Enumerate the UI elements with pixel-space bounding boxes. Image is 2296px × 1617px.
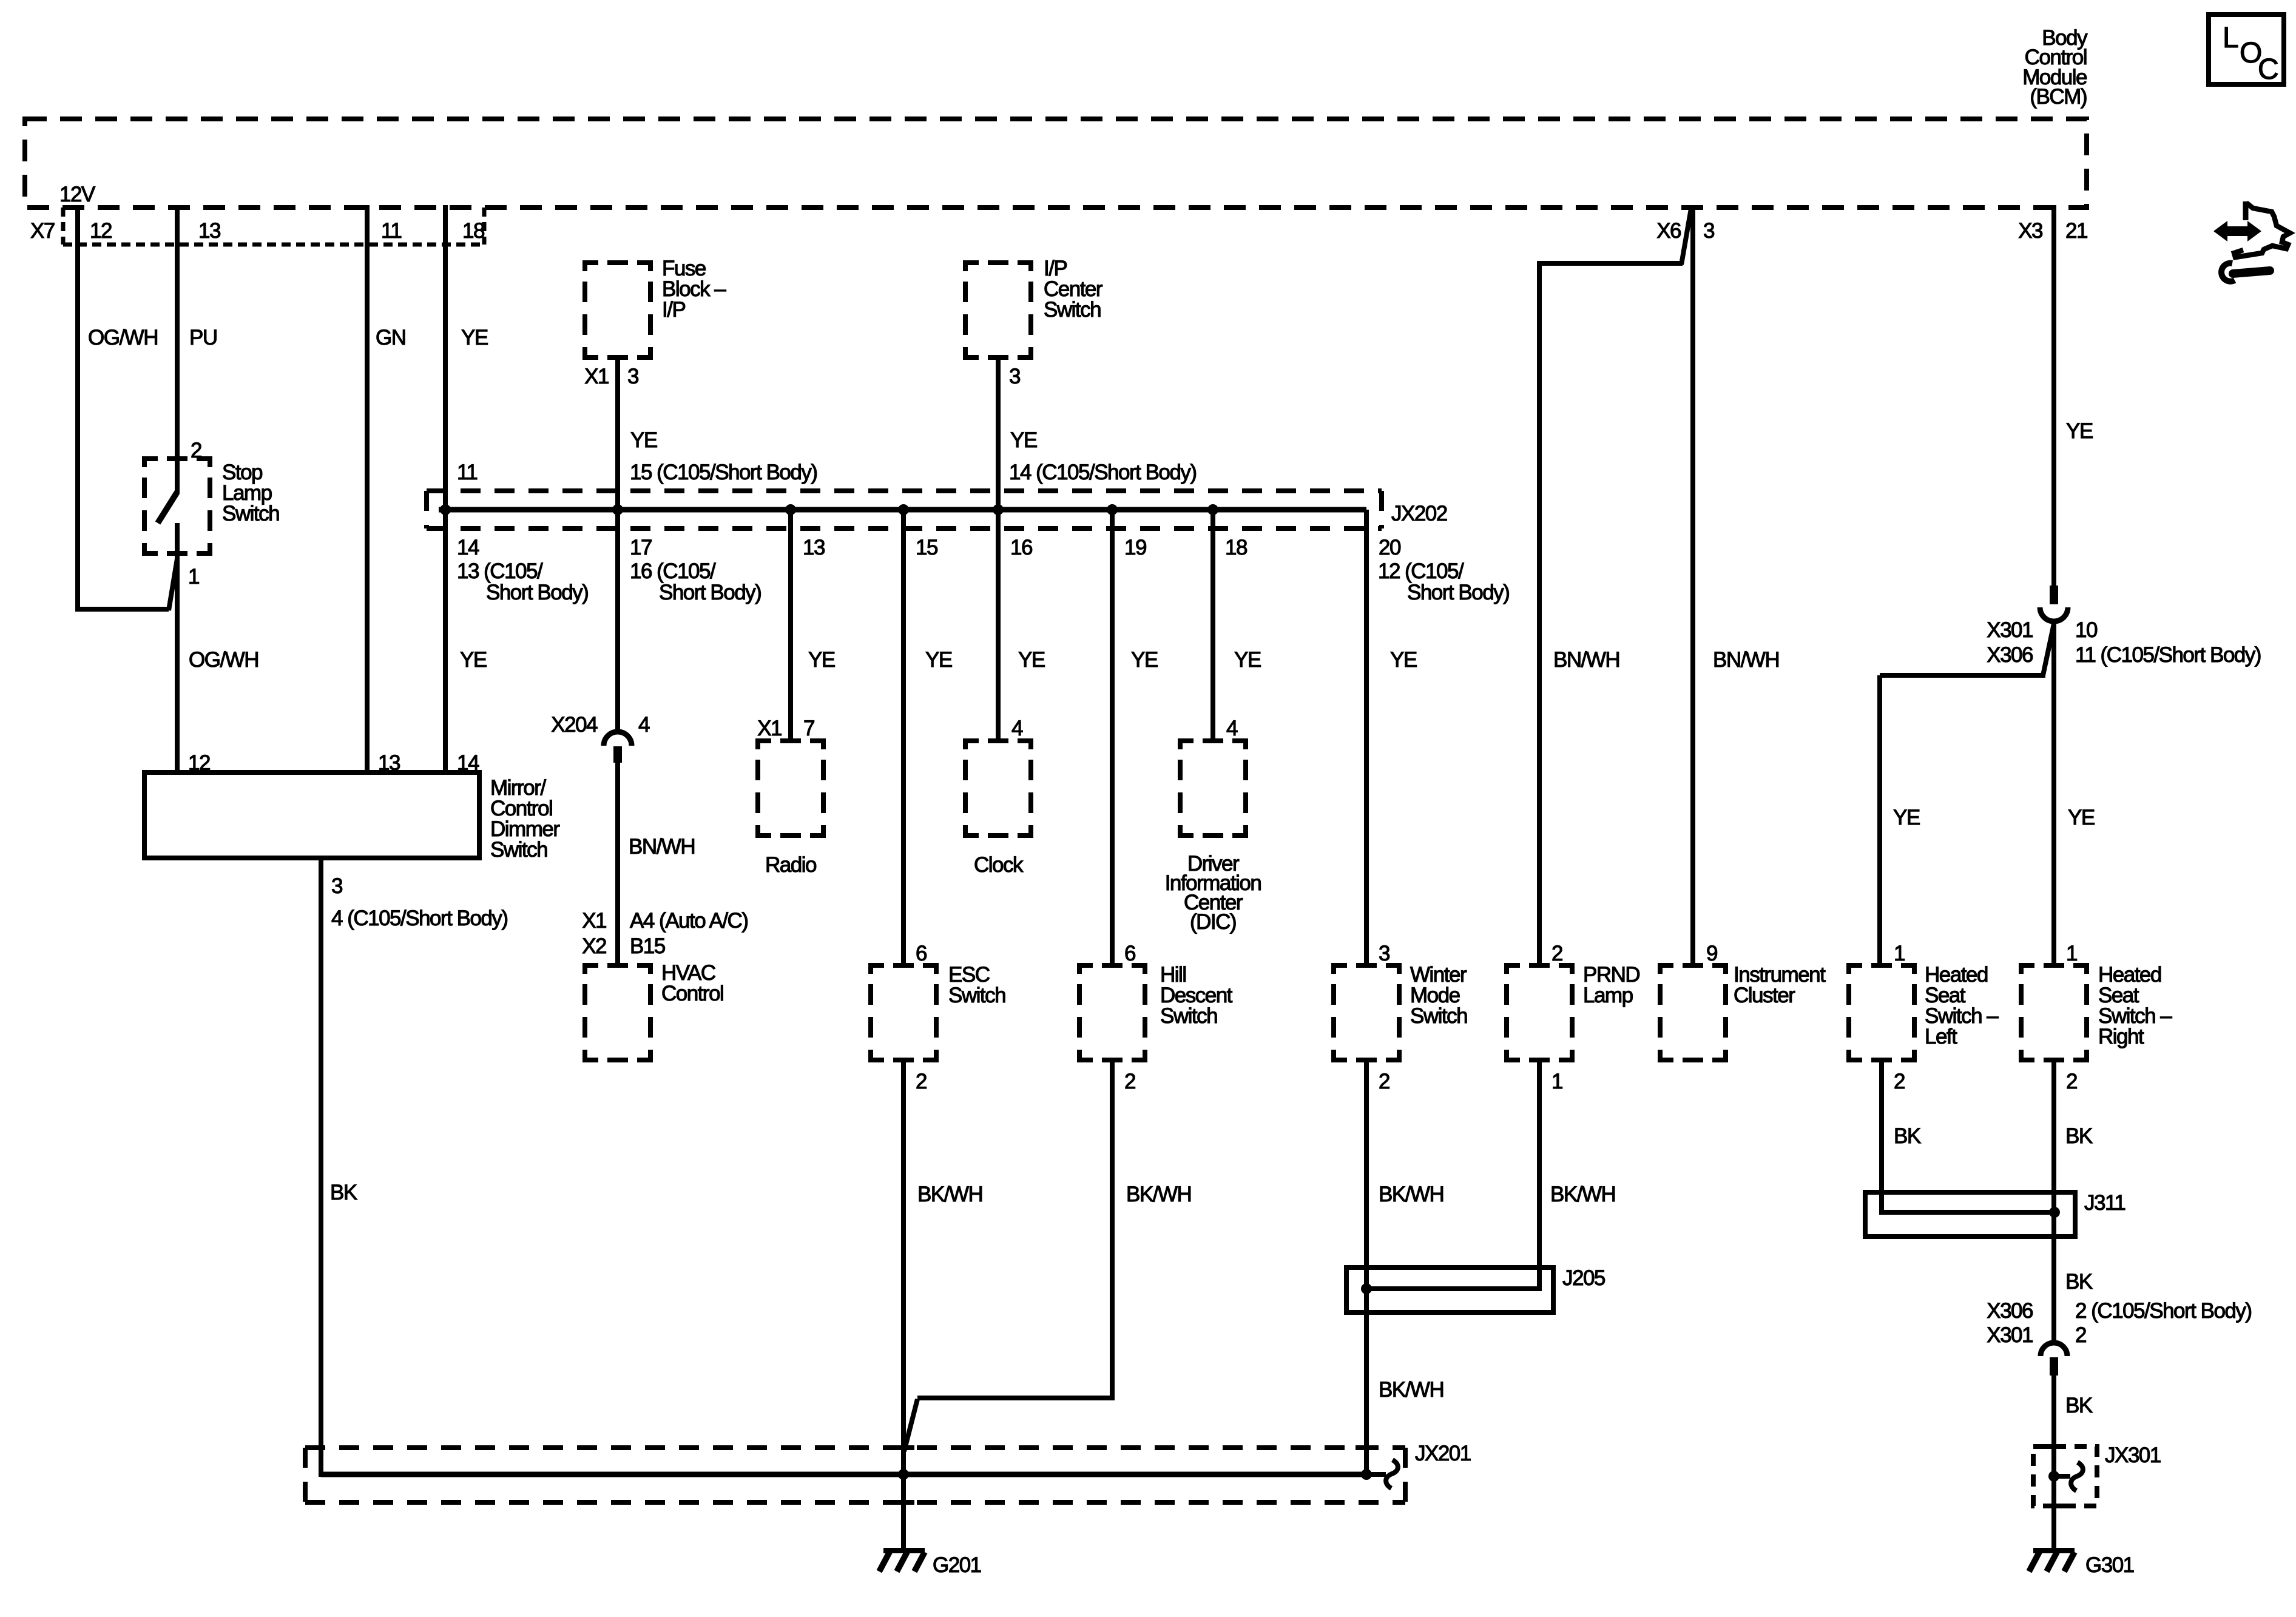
svg-text:YE: YE	[1390, 648, 1417, 672]
pin 2 label (winter lower)	[1379, 1070, 1389, 1093]
pin 12 label (mirror)	[188, 751, 210, 775]
wire BK/WH ESC to G201	[901, 1062, 906, 1551]
svg-text:2 (C105/Short Body): 2 (C105/Short Body)	[2075, 1299, 2252, 1323]
svg-text:Short Body): Short Body)	[659, 581, 761, 604]
service icon part outline	[2234, 201, 2290, 257]
pin 4 label (DIC)	[1226, 717, 1238, 740]
wire YE fuse block to JX202	[615, 360, 620, 732]
junction dot JX202 at hill descent wire	[1107, 504, 1118, 515]
connector JX201 dashed box	[305, 1448, 1405, 1502]
label BK (mirror wire)	[330, 1181, 357, 1204]
svg-text:Cluster: Cluster	[1734, 984, 1795, 1007]
svg-text:1: 1	[1551, 1070, 1562, 1093]
labels X301 X306 upper	[1987, 618, 2033, 667]
svg-text:YE: YE	[461, 326, 488, 349]
winter mode switch dashed box	[1331, 963, 1402, 1062]
svg-text:13 (C105/: 13 (C105/	[457, 559, 543, 583]
label YE (ESC wire)	[925, 648, 952, 672]
ground G201	[879, 1548, 925, 1571]
pin 6 label (ESC)	[916, 942, 927, 965]
wire YE branch to heated seat left	[1880, 675, 2045, 963]
svg-text:YE: YE	[2066, 419, 2093, 443]
svg-text:14: 14	[457, 536, 479, 559]
svg-text:3: 3	[1009, 365, 1020, 388]
svg-text:(BCM): (BCM)	[2030, 85, 2087, 109]
junction dot JX201 at winter wire	[1361, 1469, 1372, 1480]
inline connector X306/X301 lower	[2041, 1343, 2067, 1376]
svg-text:X301: X301	[1987, 618, 2033, 642]
svg-text:18: 18	[1225, 536, 1247, 559]
svg-text:Right: Right	[2098, 1025, 2144, 1048]
HVAC control label	[661, 961, 723, 1005]
svg-text:Short Body): Short Body)	[486, 581, 588, 604]
label PU	[189, 326, 217, 349]
svg-text:YE: YE	[460, 648, 487, 672]
svg-text:12V: 12V	[59, 183, 96, 206]
svg-text:Switch: Switch	[222, 502, 279, 525]
wire YE below upper connector	[2043, 620, 2054, 963]
svg-text:X1: X1	[757, 717, 782, 740]
HVAC control dashed box	[582, 963, 653, 1062]
service icon wrench	[2221, 263, 2270, 282]
label BK (heated right)	[2065, 1124, 2093, 1148]
svg-text:X306: X306	[1987, 643, 2033, 667]
svg-text:Switch: Switch	[1044, 298, 1101, 322]
label 4 (C105/Short Body)	[331, 906, 508, 930]
svg-text:9: 9	[1706, 942, 1717, 965]
label BK/WH (ESC)	[917, 1183, 982, 1206]
svg-text:15 (C105/Short Body): 15 (C105/Short Body)	[630, 461, 817, 484]
label G301	[2085, 1553, 2134, 1577]
wire BK/WH PRND to J205	[1537, 1062, 1542, 1291]
wire OG/WH from X7 pin 12	[75, 205, 177, 612]
wire PU from X7 pin 13 to stop lamp switch	[175, 205, 180, 493]
svg-text:3: 3	[1379, 942, 1389, 965]
DIC label	[1165, 852, 1261, 934]
svg-text:4: 4	[1011, 717, 1023, 740]
svg-text:2: 2	[916, 1070, 927, 1093]
svg-text:X301: X301	[1987, 1323, 2033, 1347]
svg-text:Radio: Radio	[765, 853, 816, 877]
fuse block label	[662, 257, 726, 322]
svg-text:JX301: JX301	[2105, 1443, 2161, 1467]
svg-text:2: 2	[191, 439, 201, 462]
wire YE JX202 to winter mode switch	[1364, 510, 1369, 963]
label J311	[2084, 1191, 2125, 1215]
svg-text:Control: Control	[661, 982, 723, 1005]
svg-text:Switch: Switch	[948, 984, 1005, 1007]
pin 2 label (PRND)	[1551, 942, 1562, 965]
pin labels below JX202 row2	[457, 559, 1464, 583]
pin 12 label (X7)	[90, 219, 112, 243]
label YE (radio wire)	[808, 648, 835, 672]
svg-text:X7: X7	[30, 219, 55, 243]
label pin 11 above JX202	[457, 461, 477, 484]
svg-text:15: 15	[916, 536, 937, 559]
pin 4 label (clock)	[1011, 717, 1023, 740]
instrument cluster dashed box	[1658, 963, 1728, 1062]
wire YE I/P center switch to JX202	[996, 360, 1001, 738]
label BN/WH (HVAC wire)	[629, 835, 695, 859]
svg-text:BK: BK	[2065, 1270, 2093, 1294]
junction dot JX301	[2048, 1471, 2059, 1482]
svg-text:1: 1	[2066, 942, 2077, 965]
junction dot JX202 at ESC wire	[898, 504, 909, 515]
pin X3 21 labels	[2018, 219, 2087, 243]
svg-text:JX202: JX202	[1391, 502, 1447, 525]
svg-text:B15: B15	[630, 934, 665, 958]
svg-text:21: 21	[2065, 219, 2087, 243]
svg-text:3: 3	[331, 874, 342, 898]
pin 1 label (PRND lower)	[1551, 1070, 1562, 1093]
JX201 stub and hook	[1366, 1460, 1398, 1488]
driver information center dashed box	[1178, 738, 1248, 838]
label YE (DIC wire)	[1234, 648, 1261, 672]
svg-text:X6: X6	[1656, 219, 1681, 243]
label X204	[551, 713, 650, 737]
wire YE JX202 to hill descent switch	[1110, 510, 1115, 963]
fuse block I/P dashed box	[582, 260, 653, 360]
label YE (X7-18 lower)	[460, 648, 487, 672]
pin 3 label (winter)	[1379, 942, 1389, 965]
label OG/WH (upper)	[88, 326, 158, 349]
stop lamp switch dashed box	[142, 456, 212, 556]
label BK/WH (winter)	[1379, 1183, 1443, 1206]
label YE (winter wire)	[1390, 648, 1417, 672]
I/P center switch label	[1044, 257, 1103, 322]
pin 11 label (X7)	[381, 219, 401, 243]
mirror control dimmer switch box	[144, 772, 479, 858]
pin 18 label (X7)	[462, 219, 484, 243]
label 14 (C105/Short Body)	[1009, 461, 1197, 484]
svg-text:Switch: Switch	[1410, 1004, 1467, 1028]
pin 2 label (hill lower)	[1124, 1070, 1135, 1093]
svg-text:C: C	[2258, 53, 2278, 86]
svg-text:G301: G301	[2085, 1553, 2134, 1577]
pin 3 label (I/P center switch)	[1009, 365, 1020, 388]
pin 1 label (stop lamp)	[188, 565, 199, 589]
svg-text:X306: X306	[1987, 1299, 2033, 1323]
wire BK mirror pin 3	[319, 858, 323, 1477]
pin 2 label (stop lamp)	[191, 439, 201, 462]
svg-text:I/P: I/P	[662, 298, 685, 322]
junction dot JX202 at fuse wire	[612, 504, 623, 515]
svg-text:11: 11	[381, 219, 401, 243]
wire BK heated right through J311	[2051, 1062, 2056, 1342]
pin 9 label (cluster)	[1706, 942, 1717, 965]
splice pack J311	[1865, 1192, 2075, 1237]
svg-text:YE: YE	[2068, 806, 2095, 829]
svg-text:2: 2	[1551, 942, 1562, 965]
wire YE BCM X3-21	[2051, 205, 2056, 586]
svg-text:Left: Left	[1925, 1025, 1957, 1048]
svg-text:A4 (Auto A/C): A4 (Auto A/C)	[630, 909, 748, 933]
svg-text:7: 7	[803, 717, 814, 740]
svg-text:YE: YE	[1010, 428, 1037, 452]
svg-text:G201: G201	[933, 1553, 981, 1577]
wire YE JX202 to ESC switch	[901, 510, 906, 963]
svg-text:BK: BK	[2065, 1394, 2093, 1417]
svg-text:14 (C105/Short Body): 14 (C105/Short Body)	[1009, 461, 1197, 484]
pin X1 A4 labels (HVAC)	[582, 909, 748, 933]
ESC switch dashed box	[868, 963, 939, 1062]
heated seat switch left label	[1925, 963, 1999, 1048]
svg-text:OG/WH: OG/WH	[88, 326, 158, 349]
splice pack J205	[1346, 1268, 1553, 1312]
label BK (below J311)	[2065, 1270, 2093, 1294]
connector X7 dotted box	[63, 208, 484, 245]
label BK/WH (below J205)	[1379, 1378, 1443, 1402]
junction dot JX201 at ESC wire	[898, 1469, 909, 1480]
JX201 pin ticks	[893, 1448, 1377, 1502]
pin 6 label (hill)	[1124, 942, 1135, 965]
svg-text:3: 3	[1703, 219, 1714, 243]
label OG/WH (lower)	[189, 648, 258, 672]
pin X1 7 labels (radio)	[757, 717, 814, 740]
svg-text:10: 10	[2075, 618, 2098, 642]
inline connector X301/X306 upper	[2040, 586, 2068, 621]
label YE (I/P wire)	[1010, 428, 1037, 452]
pin 2 label (heated left lower)	[1894, 1070, 1905, 1093]
svg-text:20: 20	[1379, 536, 1401, 559]
label GN	[376, 326, 406, 349]
wire BK/WH hill descent lower	[904, 1062, 1115, 1451]
clock label	[974, 853, 1024, 877]
pin X1 3 labels (fuse block)	[584, 365, 638, 388]
instrument cluster label	[1734, 963, 1826, 1007]
clock dashed box	[963, 738, 1033, 838]
svg-text:Switch: Switch	[1160, 1004, 1217, 1028]
svg-text:12 (C105/: 12 (C105/	[1378, 559, 1464, 583]
wire BK/WH winter to J205 and JX201	[1364, 1062, 1369, 1474]
labels 10 / 11 (C105/Short Body)	[2075, 618, 2261, 667]
pin labels below JX202 row1	[457, 536, 1401, 559]
svg-text:BK: BK	[1894, 1124, 1921, 1148]
svg-text:13: 13	[803, 536, 825, 559]
label YE (hill wire)	[1131, 648, 1158, 672]
pin labels below JX202 row3	[486, 581, 1509, 604]
label YE (clock wire)	[1018, 648, 1045, 672]
label YE (heated right wire)	[2068, 806, 2095, 829]
label 12V inside BCM	[59, 183, 96, 206]
svg-text:2: 2	[1894, 1070, 1905, 1093]
junction dot JX202 at DIC wire	[1207, 504, 1218, 515]
svg-text:4: 4	[1226, 717, 1238, 740]
radio dashed box	[755, 738, 826, 838]
svg-text:J311: J311	[2084, 1191, 2125, 1215]
svg-text:YE: YE	[1131, 648, 1158, 672]
inline connector X204	[604, 732, 632, 763]
svg-text:BK/WH: BK/WH	[1126, 1183, 1191, 1206]
svg-text:6: 6	[1124, 942, 1135, 965]
label BN/WH (cluster wire)	[1713, 648, 1779, 672]
label YE (X7-18)	[461, 326, 488, 349]
label BK/WH (PRND)	[1550, 1183, 1615, 1206]
JX202 bus wire	[439, 507, 1366, 513]
svg-text:BN/WH: BN/WH	[1553, 648, 1619, 672]
pin 1 label (heated right)	[2066, 942, 2077, 965]
hill descent switch dashed box	[1077, 963, 1147, 1062]
svg-text:Short Body): Short Body)	[1407, 581, 1509, 604]
stop lamp switch label	[222, 461, 279, 525]
svg-text:1: 1	[188, 565, 199, 589]
svg-text:L: L	[2223, 22, 2238, 54]
junction dot J205	[1361, 1283, 1372, 1294]
label G201	[933, 1553, 981, 1577]
pin X6 3 labels	[1656, 219, 1714, 243]
label YE (heated left wire)	[1893, 806, 1920, 829]
label BK/WH (hill)	[1126, 1183, 1191, 1206]
radio label	[765, 853, 816, 877]
wire BN/WH BCM X6-3 to instrument cluster	[1690, 205, 1695, 963]
pin 14 label (mirror)	[457, 751, 479, 775]
label JX301	[2105, 1443, 2161, 1467]
svg-text:(DIC): (DIC)	[1190, 910, 1236, 934]
pin 2 label (heated right lower)	[2066, 1070, 2077, 1093]
svg-text:18: 18	[462, 219, 484, 243]
pin 1 label (heated left)	[1894, 942, 1905, 965]
svg-text:6: 6	[916, 942, 927, 965]
svg-text:4: 4	[638, 713, 650, 737]
wire BN/WH BCM X6-3 to PRND lamp	[1537, 209, 1691, 963]
svg-text:2: 2	[1124, 1070, 1135, 1093]
wire YE to clock	[996, 510, 1001, 738]
svg-text:X3: X3	[2018, 219, 2042, 243]
svg-text:13: 13	[378, 751, 400, 775]
label BK (heated left)	[1894, 1124, 1921, 1148]
wire YE from X7 pin 18	[443, 205, 448, 772]
svg-text:OG/WH: OG/WH	[189, 648, 258, 672]
svg-text:19: 19	[1124, 536, 1146, 559]
svg-text:YE: YE	[925, 648, 952, 672]
svg-text:12: 12	[188, 751, 210, 775]
svg-text:JX201: JX201	[1415, 1442, 1471, 1465]
svg-text:1: 1	[1894, 942, 1905, 965]
JX301 stub and hook	[2054, 1462, 2083, 1491]
wire YE JX202 to DIC	[1210, 510, 1215, 738]
svg-text:3: 3	[627, 365, 638, 388]
PRND lamp dashed box	[1504, 963, 1575, 1062]
label X7	[30, 219, 55, 243]
label YE (X3 wire)	[2066, 419, 2093, 443]
label JX201	[1415, 1442, 1471, 1465]
svg-text:YE: YE	[1018, 648, 1045, 672]
svg-text:YE: YE	[808, 648, 835, 672]
labels X306 X301 lower	[1987, 1299, 2033, 1347]
label 15 (C105/Short Body)	[630, 461, 817, 484]
svg-text:J205: J205	[1562, 1266, 1605, 1290]
pin 2 label (ESC lower)	[916, 1070, 927, 1093]
svg-text:2: 2	[2066, 1070, 2077, 1093]
wire BN/WH X204 to HVAC	[615, 763, 620, 963]
svg-text:12: 12	[90, 219, 112, 243]
pin 13 label (X7)	[198, 219, 220, 243]
connector JX301 dashed box	[2033, 1447, 2097, 1506]
svg-text:YE: YE	[1234, 648, 1261, 672]
LOC reference box	[2209, 15, 2284, 86]
svg-text:BK/WH: BK/WH	[1550, 1183, 1615, 1206]
svg-text:17: 17	[630, 536, 652, 559]
svg-text:BN/WH: BN/WH	[1713, 648, 1779, 672]
PRND lamp label	[1583, 963, 1639, 1007]
junction dot J311	[2049, 1207, 2060, 1218]
connector JX202 dashed box	[427, 491, 1382, 528]
svg-text:Switch: Switch	[490, 838, 547, 862]
svg-text:BK/WH: BK/WH	[1379, 1183, 1443, 1206]
svg-text:11 (C105/Short Body): 11 (C105/Short Body)	[2075, 643, 2261, 667]
pin 3 label (mirror)	[331, 874, 342, 898]
pin X2 B15 labels (HVAC)	[582, 934, 665, 958]
junction dot JX202 at clock wire	[993, 504, 1004, 515]
wire BK heated left to J311	[1879, 1062, 1884, 1215]
junction dot JX202 at YE X7-18 wire	[440, 504, 451, 515]
hill descent switch label	[1160, 963, 1233, 1028]
ESC switch label	[948, 963, 1005, 1007]
svg-text:X1: X1	[584, 365, 609, 388]
svg-text:X2: X2	[582, 934, 606, 958]
svg-text:BK/WH: BK/WH	[1379, 1378, 1443, 1402]
svg-text:16 (C105/: 16 (C105/	[630, 559, 716, 583]
svg-text:BK: BK	[330, 1181, 357, 1204]
svg-text:BK: BK	[2065, 1124, 2093, 1148]
svg-text:BN/WH: BN/WH	[629, 835, 695, 859]
svg-text:X204: X204	[551, 713, 598, 737]
pin 13 label (mirror)	[378, 751, 400, 775]
pin 1 stub (stop lamp)	[175, 523, 180, 772]
svg-text:2: 2	[2075, 1323, 2086, 1347]
heated seat switch left dashed box	[1846, 963, 1917, 1062]
svg-text:14: 14	[457, 751, 479, 775]
label BN/WH (PRND wire)	[1553, 648, 1619, 672]
Body Control Module (BCM) dashed box	[25, 119, 2087, 208]
label YE (fuse wire)	[630, 428, 657, 452]
winter mode switch label	[1410, 963, 1467, 1028]
JX301 pin ticks	[2043, 1447, 2065, 1506]
svg-text:13: 13	[198, 219, 220, 243]
wire YE JX202 to radio	[788, 510, 793, 738]
I/P center switch dashed box	[963, 260, 1033, 360]
label J205	[1562, 1266, 1605, 1290]
junction dot JX202 at radio wire	[785, 504, 796, 515]
service icon double arrow	[2213, 221, 2261, 241]
heated seat switch right dashed box	[2019, 963, 2089, 1062]
svg-text:Lamp: Lamp	[1583, 984, 1633, 1007]
svg-text:BK/WH: BK/WH	[917, 1183, 982, 1206]
svg-text:X1: X1	[582, 909, 606, 933]
ground G301	[2029, 1548, 2075, 1571]
svg-text:2: 2	[1379, 1070, 1389, 1093]
JX201 bus wire	[321, 1472, 1366, 1477]
wire GN from X7 pin 11 to mirror switch pin 13	[365, 205, 370, 772]
heated seat switch right label	[2098, 963, 2172, 1048]
label JX202	[1391, 502, 1447, 525]
wire BK below lower connector	[2051, 1376, 2056, 1551]
svg-text:11: 11	[457, 461, 477, 484]
svg-text:YE: YE	[630, 428, 657, 452]
svg-text:4 (C105/Short Body): 4 (C105/Short Body)	[331, 906, 508, 930]
mirror switch label	[490, 776, 560, 862]
svg-text:PU: PU	[189, 326, 217, 349]
labels 2 (C105/Short Body) / 2	[2075, 1299, 2252, 1347]
svg-text:GN: GN	[376, 326, 406, 349]
BCM name label	[2022, 26, 2088, 109]
stop lamp switch blade	[158, 492, 177, 523]
svg-text:YE: YE	[1893, 806, 1920, 829]
svg-text:Clock: Clock	[974, 853, 1024, 877]
svg-text:16: 16	[1010, 536, 1032, 559]
label BK (to G301)	[2065, 1394, 2093, 1417]
